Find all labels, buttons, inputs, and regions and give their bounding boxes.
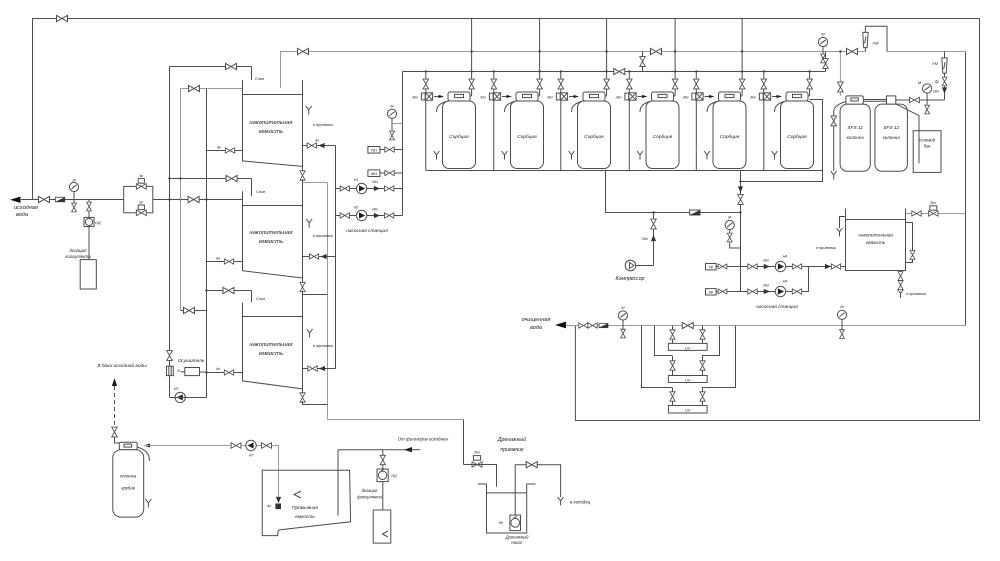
wire pump row H5 — [741, 267, 809, 292]
gauge PI1 with stem — [69, 182, 78, 191]
tank flocculant — [373, 510, 391, 543]
valve V91 column top — [112, 427, 118, 437]
funnel tank T1 overflow — [306, 106, 312, 115]
svg-text:в приемник: в приемник — [906, 292, 926, 296]
funnel column C3 — [569, 151, 575, 160]
wire pump H6 discharge — [515, 465, 527, 515]
svg-text:Сорбция: Сорбция — [653, 134, 673, 140]
wire UV2 taps — [672, 356, 674, 376]
valve V94 floc — [380, 455, 385, 464]
flowmeter FM2 — [942, 58, 947, 73]
valve V85 UV1 left — [670, 330, 675, 339]
node arrow into C3 cap — [574, 95, 580, 98]
column C1 top cap — [448, 92, 470, 101]
node inlet arrow — [10, 197, 21, 203]
valve V63 PB2 — [718, 264, 727, 269]
wire drain hook C3 — [572, 102, 582, 113]
wire header interconnect x825 — [825, 52, 827, 72]
check CV9 H5 — [764, 289, 770, 294]
filter F03 clean — [599, 323, 608, 327]
pump H6 submersible — [510, 515, 521, 531]
check CV4 H1 — [374, 186, 380, 191]
valve V21 under PI2 — [390, 131, 395, 140]
svg-text:Сорбция: Сорбция — [449, 134, 469, 140]
valve V10 jog line — [184, 307, 195, 313]
wire vertical x206 — [206, 89, 208, 398]
wire tank T2 outlet — [303, 256, 336, 258]
wire right station bus — [740, 171, 742, 292]
check CV10 OKl — [942, 87, 947, 93]
wire CB overflow hook — [137, 447, 149, 461]
wire pit feed elbow — [464, 465, 497, 487]
wire pump H3 line — [170, 397, 207, 399]
valve V82 under PI6 — [621, 329, 626, 338]
funnel column C6 — [772, 151, 778, 160]
electrovalve EK pit — [472, 462, 482, 468]
wire dryer to T3 line — [200, 371, 207, 373]
svg-text:Ав: Ав — [266, 504, 271, 508]
wire T4 overflow — [840, 217, 846, 229]
tank T4 storage — [846, 209, 906, 271]
wire tank T3 outlet — [303, 368, 336, 370]
wire UV left bus inner — [655, 326, 673, 356]
wire drain hook C4 — [640, 102, 650, 113]
valve V95 H6 discharge — [526, 462, 537, 468]
wire discharge to tank T4 — [809, 266, 846, 268]
funnel tank T2 overflow — [306, 219, 312, 228]
svg-text:емкость: емкость — [295, 515, 315, 520]
wire EK drain vertical C2 — [493, 100, 495, 170]
wire SFS caps link — [863, 99, 886, 101]
valve V34 under PI3 — [821, 54, 826, 63]
svg-text:емкость: емкость — [259, 129, 283, 135]
svg-text:Осушитель: Осушитель — [178, 358, 205, 364]
valve V15 T2 left — [224, 259, 233, 264]
valve V22 PB1 — [385, 147, 394, 152]
svg-text:накопительная: накопительная — [249, 120, 293, 126]
valve V93 wash line2 — [262, 443, 272, 449]
valve V26 H2 suction — [340, 213, 349, 218]
svg-text:вода: вода — [530, 325, 542, 331]
node arrow into C5 cap — [709, 95, 715, 98]
filter F01 inlet — [55, 197, 64, 202]
wire floc down — [382, 482, 384, 510]
svg-text:в колодец: в колодец — [570, 500, 591, 505]
valve V13 T1 bottom — [300, 171, 305, 180]
svg-text:АВ: АВ — [708, 291, 714, 295]
box PB1 relief — [368, 147, 380, 154]
electrovalve EK2 bottom — [136, 210, 146, 216]
column C3 sorption body — [578, 101, 611, 169]
pump H7 — [246, 440, 256, 450]
svg-text:ЭКл: ЭКл — [480, 96, 486, 100]
gauge PI3 on header — [818, 37, 827, 46]
valve V20 dryer line — [167, 351, 173, 361]
valve V43 EK feed — [558, 79, 564, 89]
valve V28 header — [298, 48, 309, 54]
valve V74 SFS feed — [838, 82, 844, 92]
wire H6 to well — [537, 465, 561, 497]
valve V54 cap feed — [672, 79, 678, 89]
column C5 top cap — [719, 92, 741, 101]
flowmeter FM1 — [863, 32, 868, 47]
valve V46 EK feed — [761, 79, 767, 89]
electrovalve EK T4 — [929, 211, 938, 216]
valve V02 inlet — [39, 196, 50, 202]
valve V66 H4 discharge — [792, 264, 801, 269]
wire EK feed vertical C6 — [763, 71, 765, 92]
valve V16 T2 bottom — [300, 282, 305, 291]
column C4 top cap — [652, 92, 674, 101]
funnel tank T3 overflow — [307, 329, 313, 338]
svg-text:Эк: Эк — [139, 201, 143, 205]
node float switch — [276, 497, 281, 503]
wire EK feed vertical C4 — [628, 71, 630, 92]
svg-text:накопительная: накопительная — [858, 233, 893, 238]
valve V24 H1 suction — [340, 186, 349, 191]
column SFS12 body — [875, 104, 908, 171]
dryer rotameter — [167, 366, 174, 375]
svg-text:грубая: грубая — [121, 486, 135, 491]
wire T4 level tube — [906, 223, 913, 263]
svg-text:Сорбция: Сорбция — [787, 134, 807, 140]
valve V18 T3 left — [224, 370, 233, 375]
wire wash feed line — [144, 445, 279, 447]
wire drain hook C5 — [707, 102, 717, 113]
wire cap feed vertical C5 — [741, 19, 743, 97]
wire dosing line down — [88, 227, 90, 260]
valve V09 tank3 fill — [223, 287, 234, 293]
gauge PI2 — [387, 109, 396, 118]
wire tank3 fill line — [207, 290, 252, 292]
unit UV3 — [668, 406, 707, 414]
svg-text:насосная станция: насосная станция — [346, 229, 388, 234]
wire inlet main line — [21, 199, 124, 201]
svg-text:насосная станция: насосная станция — [756, 305, 798, 310]
dosing pump ND1 — [84, 217, 94, 226]
valve V01 on top line — [57, 15, 68, 21]
wire main header y51.5 — [280, 51, 966, 53]
dryer box — [185, 368, 200, 376]
valve V17 T3 outlet — [308, 366, 317, 371]
column C5 sorption body — [713, 101, 746, 169]
wire FM chain x944 — [944, 52, 946, 101]
svg-text:Эк: Эк — [139, 174, 143, 178]
tank T2 storage — [243, 191, 303, 282]
valve V88 UV2 right — [700, 361, 705, 370]
valve V27 H2 discharge — [385, 213, 394, 218]
svg-text:РВ1: РВ1 — [371, 149, 378, 153]
bypass box — [124, 186, 153, 212]
funnel well — [558, 497, 564, 506]
column C4 sorption body — [646, 101, 679, 169]
node level mark floc — [383, 531, 389, 537]
valve V86 UV1 right — [700, 330, 705, 339]
tank T1 storage — [243, 80, 303, 170]
svg-text:Сорбция: Сорбция — [720, 134, 740, 140]
electrovalve EK C4 — [625, 93, 636, 100]
wire compressor air line — [606, 171, 741, 213]
svg-text:в приемник: в приемник — [313, 234, 333, 238]
electrovalve EK C6 — [759, 93, 770, 100]
valve V32 interconnect — [640, 57, 646, 67]
node arrow into C4 cap — [642, 95, 648, 98]
wire cap feed vertical C2 — [539, 19, 541, 97]
svg-text:дозация: дозация — [70, 248, 88, 253]
valve V11 T1 outlet — [307, 143, 316, 148]
wire T4 bottom drain — [900, 271, 902, 290]
valve V78 SFS drain — [831, 116, 837, 126]
valve V12 T1 drain — [225, 148, 234, 153]
svg-text:FM: FM — [873, 41, 879, 46]
svg-text:ОКл: ОКл — [763, 284, 769, 288]
tank wash basin — [262, 470, 350, 535]
electrovalve EK C1 — [421, 93, 432, 100]
gauge PI7 — [837, 310, 846, 319]
valve V29 header mid — [651, 48, 662, 54]
svg-text:ЭКл: ЭКл — [412, 96, 418, 100]
svg-text:Др: Др — [934, 80, 939, 84]
svg-text:SFS 12: SFS 12 — [883, 125, 899, 131]
svg-text:солевой: солевой — [919, 138, 936, 143]
valve V31 lower header — [614, 68, 625, 74]
gauge PI5 — [923, 84, 932, 93]
tank coagulant — [80, 260, 96, 289]
box AB2 — [706, 289, 717, 295]
electrovalve EK C2 — [489, 93, 500, 100]
wire SFS11 drain — [834, 102, 846, 172]
column C6 top cap — [786, 92, 808, 101]
box AB1 — [368, 170, 380, 177]
wire EK drain vertical C6 — [763, 100, 765, 170]
wire tank T3 left line — [207, 372, 243, 374]
valve V03 under gauge PI1 — [72, 203, 77, 212]
unit UV1 — [668, 343, 707, 350]
gauge PI6 — [618, 311, 627, 320]
wire FM loop — [865, 26, 887, 51]
svg-text:UV: UV — [685, 377, 691, 382]
svg-text:Н6: Н6 — [499, 521, 503, 525]
wire T1 bottom to drain bus — [302, 179, 304, 191]
column CB body — [113, 450, 144, 517]
check CV6 compressor — [651, 235, 656, 241]
svg-text:От фильтров исходных: От фильтров исходных — [398, 437, 449, 442]
svg-text:колонна: колонна — [847, 135, 865, 140]
wire drain bus x327 — [327, 183, 329, 420]
electrovalve EK C3 — [556, 93, 567, 100]
svg-text:в приемник: в приемник — [313, 344, 333, 348]
valve V65 H4 suction — [748, 264, 757, 269]
wire suction bus x336 — [335, 146, 337, 369]
valve V68 H5 discharge — [792, 289, 801, 294]
wire brine suction — [896, 104, 919, 163]
svg-text:ОКл: ОКл — [372, 208, 378, 212]
valve V76 under PI5 — [925, 105, 930, 114]
funnel T4 overflow — [837, 228, 843, 237]
valve V25 H1 discharge — [385, 186, 394, 191]
svg-text:бак: бак — [924, 144, 932, 149]
wire line A to tank1 fill — [170, 66, 252, 68]
node level mark wash — [294, 491, 301, 498]
pump H5 — [775, 286, 785, 296]
column C3 top cap — [583, 92, 605, 101]
column SFS11 cap — [846, 96, 863, 104]
svg-text:Слив: Слив — [256, 190, 265, 194]
wire UV left bus outer — [642, 326, 673, 388]
funnel column C5 — [704, 151, 710, 160]
wire SFS top feed — [839, 52, 841, 96]
svg-text:Ав: Ав — [215, 257, 220, 261]
valve V19 T3 bottom — [300, 393, 305, 402]
svg-text:Ав: Ав — [216, 146, 221, 150]
wire tank T1 outlet — [303, 145, 336, 147]
funnel T4 drain — [898, 290, 904, 299]
wire tank2 fill line — [170, 178, 252, 180]
valve V81 clean — [588, 323, 597, 328]
svg-text:Дренажный: Дренажный — [505, 535, 530, 540]
svg-text:Слив: Слив — [255, 77, 264, 81]
funnel SFS drain — [831, 171, 837, 180]
wire EK feed vertical C1 — [425, 71, 427, 92]
column C6 sorption body — [781, 101, 814, 169]
wire regen return line — [741, 100, 823, 182]
funnel column C1 — [434, 151, 440, 160]
svg-text:Промывная: Промывная — [292, 505, 318, 511]
wire T2 bottom to drain bus — [302, 291, 304, 303]
svg-text:в приемник: в приемник — [313, 123, 333, 127]
compressor unit — [625, 260, 636, 271]
node arrow filters — [404, 447, 412, 452]
valve V23 AB1 — [385, 170, 394, 175]
node clean water arrow — [555, 322, 566, 329]
valve V84 under PI7 — [840, 330, 845, 339]
svg-text:ЭКл: ЭКл — [930, 201, 936, 205]
wire pump row H4 — [741, 266, 809, 268]
valve V92 wash line — [231, 443, 241, 449]
svg-text:Н3: Н3 — [174, 387, 179, 391]
svg-text:НД: НД — [95, 221, 101, 225]
svg-text:Н5: Н5 — [783, 280, 788, 284]
valve V51 cap feed — [469, 79, 475, 89]
pump H2 — [356, 210, 366, 220]
valve V45 EK feed — [694, 79, 700, 89]
svg-text:емкость: емкость — [259, 239, 283, 245]
wire tank1 top fill drop x280 — [280, 52, 282, 89]
wire drain hook C2 — [505, 102, 515, 113]
unit UV2 — [668, 376, 707, 383]
column SFS12 cap — [887, 96, 896, 104]
funnel column C2 — [502, 151, 508, 160]
valve V83 UV bypass — [682, 322, 693, 328]
svg-text:Дренажный: Дренажный — [497, 436, 526, 443]
node arrow into C1 cap — [439, 95, 445, 98]
electrovalve EK C5 — [692, 93, 703, 100]
valve V41 EK feed — [423, 79, 429, 89]
wire cap feed vertical C1 — [471, 19, 473, 97]
svg-text:вода: вода — [16, 212, 28, 218]
wire wash line drop — [278, 446, 280, 501]
svg-text:емкость: емкость — [259, 351, 283, 357]
valve V55 cap feed — [739, 79, 745, 89]
wire pump row H2 — [336, 215, 403, 217]
valve V77 Dr — [942, 77, 947, 86]
valve V90 UV3 right — [700, 392, 705, 401]
wire cap feed vertical C6 — [809, 71, 811, 96]
wire EK drain vertical C5 — [695, 100, 697, 170]
wire drain hook C6 — [775, 102, 785, 113]
wire drain header to pit — [328, 419, 464, 421]
wire vertical x170 — [169, 67, 171, 398]
wire EK feed vertical C5 — [695, 71, 697, 92]
wire discharge bus x403 — [402, 72, 404, 216]
svg-text:дозация: дозация — [362, 488, 379, 493]
valve V06 line A — [226, 63, 237, 69]
svg-text:ЭКл: ЭКл — [750, 96, 756, 100]
valve V30 header right — [847, 48, 858, 54]
pit walls — [478, 484, 536, 533]
check CV2 T2 outlet — [320, 254, 326, 259]
valve V60 compressor — [651, 219, 657, 229]
valve V44 EK feed — [627, 79, 633, 89]
node arrow into C2 cap — [507, 95, 513, 98]
svg-text:очищенная: очищенная — [522, 317, 551, 323]
wire pit drop — [463, 420, 465, 465]
wire UV1 taps — [672, 326, 674, 344]
svg-text:UV: UV — [685, 407, 691, 412]
wire tank T1 left drain line — [207, 150, 243, 152]
svg-text:Н1: Н1 — [354, 178, 359, 182]
svg-text:ЭКл: ЭКл — [683, 96, 689, 100]
valve V87 UV2 left — [670, 361, 675, 370]
svg-text:коагулянта: коагулянта — [65, 254, 91, 259]
wire line B — [181, 88, 243, 90]
check CV8 H4 — [764, 264, 770, 269]
valve V62 under PI4 — [727, 233, 732, 242]
column CB cap — [119, 442, 137, 450]
wire cap feed vertical C3 — [606, 19, 608, 97]
filter F02 air line — [690, 210, 700, 215]
wire UV right bus inner — [702, 326, 720, 356]
svg-text:SFS 11: SFS 11 — [847, 125, 863, 131]
valve V73 T4 drain2 — [898, 281, 903, 290]
svg-text:насос: насос — [511, 540, 523, 545]
electrovalve EK1 top — [136, 184, 146, 190]
svg-text:ЭКл: ЭКл — [547, 96, 553, 100]
node arrow into CB — [144, 444, 150, 448]
wire pump row H1 — [336, 188, 403, 190]
valve V42 EK feed — [491, 79, 497, 89]
valve V72 T4 drain — [898, 272, 903, 281]
svg-text:Компрессор: Компрессор — [615, 276, 644, 282]
wire tank1 fill drop — [251, 67, 253, 81]
valve V52 cap feed — [537, 79, 543, 89]
wire EK drain vertical C4 — [628, 100, 630, 170]
wire tank T2 left drain line — [207, 261, 243, 263]
valve V75 SFS out — [909, 97, 919, 103]
valve V08 tank2 fill — [226, 175, 237, 181]
tank T3 storage — [243, 303, 303, 394]
svg-text:Ав: Ав — [215, 367, 220, 371]
wire right bus to clean-water line — [965, 52, 967, 326]
wire T4 feed line — [906, 213, 966, 215]
valve V89 UV3 left — [670, 392, 675, 401]
wire SFS12 out line — [896, 99, 945, 101]
svg-text:Ав: Ав — [314, 139, 319, 143]
pump H4 — [775, 261, 785, 271]
svg-text:Сорбция: Сорбция — [584, 134, 604, 140]
valve V04 dosing tap — [87, 202, 92, 211]
svg-text:Н2: Н2 — [354, 206, 359, 210]
